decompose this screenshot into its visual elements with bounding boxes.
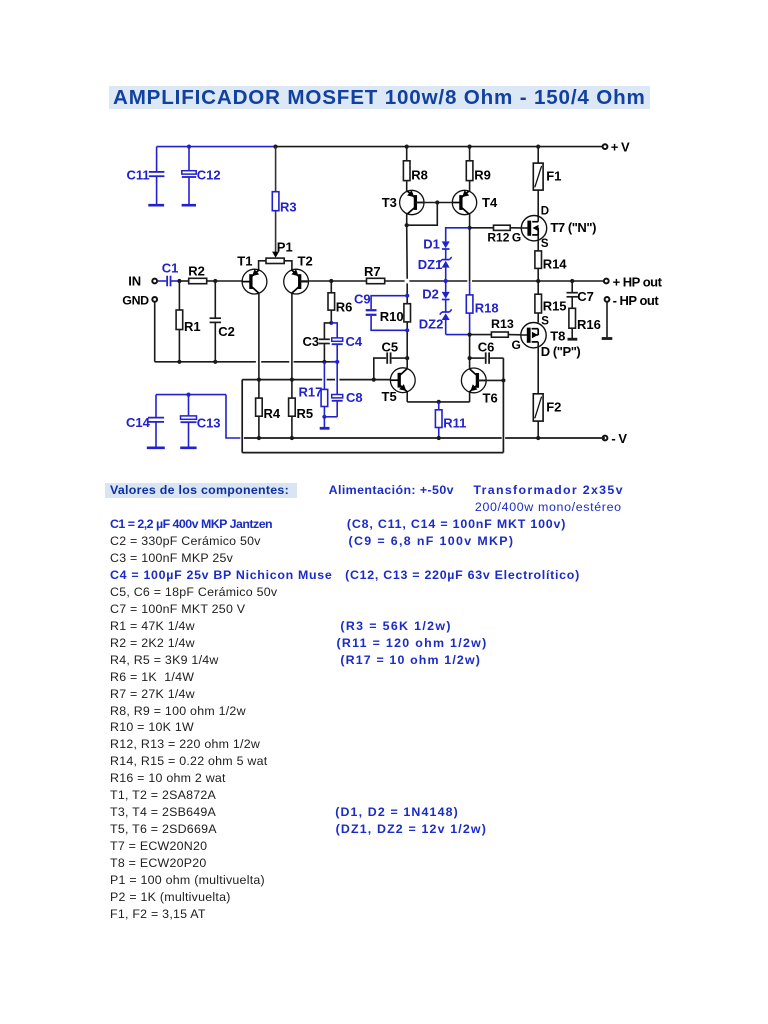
MOSFET T8 bbox=[521, 323, 581, 360]
wire R2 to T1 base bbox=[215, 280, 242, 282]
svg-text:R5: R5 bbox=[297, 406, 314, 421]
MOSFET T7 bbox=[521, 205, 596, 250]
ground bus wire bbox=[155, 361, 338, 363]
node R2/C2 junction bbox=[213, 279, 217, 283]
svg-text:G: G bbox=[512, 230, 521, 244]
capacitor C9 bbox=[354, 291, 407, 330]
output terminal +HP out bbox=[604, 275, 663, 290]
svg-text:C13: C13 bbox=[197, 415, 221, 430]
wire T2 base to R6/R7 node bbox=[300, 280, 332, 282]
capacitor C7 bbox=[567, 281, 594, 308]
output terminal -HP out bbox=[605, 293, 660, 308]
node R18 bottom / R13 bbox=[468, 333, 472, 337]
wire feedback network left edge bbox=[241, 380, 243, 453]
capacitor C12 bbox=[182, 147, 221, 206]
resistor R8 bbox=[403, 147, 427, 183]
node C5 right / T5 collector line bbox=[405, 356, 409, 360]
svg-text:T5: T5 bbox=[382, 389, 397, 404]
svg-text:C7: C7 bbox=[577, 289, 594, 304]
svg-text:R7: R7 bbox=[364, 264, 381, 279]
ground bar below -HP out bbox=[602, 337, 613, 340]
fuse F1 bbox=[533, 147, 561, 222]
wire T6 base to feedback edge bbox=[477, 379, 503, 381]
transistor T1 bbox=[237, 253, 267, 294]
node C3/C4 top junction bbox=[329, 321, 333, 325]
node C12 / +V rail junction bbox=[187, 145, 191, 149]
node R9 / +V rail bbox=[468, 145, 472, 149]
node C7 / output line bbox=[570, 279, 574, 283]
node R5 / -V rail bbox=[290, 436, 294, 440]
transistor T4 bbox=[452, 181, 498, 215]
node C9 bottom / VAS line bbox=[405, 328, 409, 332]
transistor T5 bbox=[382, 368, 416, 404]
ground terminal GND bbox=[122, 293, 157, 307]
node T1 collector / T5 base line bbox=[257, 378, 261, 382]
zener diode DZ1 bbox=[418, 249, 452, 281]
capacitor C3 bbox=[303, 323, 332, 362]
wire T3 base to T4 base bbox=[415, 202, 453, 204]
capacitor C6 bbox=[470, 340, 504, 364]
wire T8 drain to F2 bbox=[537, 342, 539, 394]
capacitor C11 bbox=[127, 147, 165, 206]
capacitor C1 bbox=[157, 261, 179, 287]
supply terminal +V bbox=[603, 140, 630, 155]
wire output feedback line (R7 to D-chain) bbox=[385, 280, 446, 282]
svg-text:DZ2: DZ2 bbox=[419, 317, 444, 332]
wire C14/C13 top to -V rail bbox=[156, 395, 240, 438]
svg-text:C5: C5 bbox=[382, 339, 399, 354]
input terminal IN bbox=[128, 274, 157, 289]
capacitor C2 bbox=[210, 281, 235, 362]
node R11 / -V rail bbox=[437, 436, 441, 440]
capacitor C8 bbox=[324, 362, 362, 417]
supply terminal -V bbox=[603, 431, 628, 446]
svg-text:C12: C12 bbox=[197, 168, 221, 183]
page title bbox=[109, 86, 650, 109]
svg-text:C2: C2 bbox=[218, 324, 235, 339]
svg-text:R8: R8 bbox=[411, 168, 428, 183]
svg-text:T1: T1 bbox=[237, 253, 252, 268]
wire T5 emitter to T6 emitter bbox=[407, 392, 469, 402]
node C2/ground bus bbox=[213, 360, 217, 364]
resistor R4 bbox=[256, 398, 281, 421]
svg-text:D1: D1 bbox=[423, 237, 440, 252]
wire feedback network right edge bbox=[502, 358, 504, 453]
fuse F2 bbox=[533, 394, 561, 438]
wire P1 right to T2 emitter bbox=[284, 261, 292, 271]
svg-text:R11: R11 bbox=[443, 416, 466, 431]
resistor R10 bbox=[380, 304, 411, 324]
svg-text:T3: T3 bbox=[382, 195, 397, 210]
node C4/ground bus bbox=[335, 360, 339, 364]
wire -V rail bbox=[244, 437, 605, 439]
node C6 left / T6 collector line bbox=[468, 356, 472, 360]
svg-text:F1: F1 bbox=[546, 168, 561, 183]
component values list bbox=[0, 483, 768, 500]
transistor T6 bbox=[461, 368, 497, 406]
diode D1 bbox=[423, 228, 469, 252]
node R14 / output line bbox=[536, 279, 540, 283]
svg-text:R15: R15 bbox=[543, 298, 567, 313]
capacitor C14 bbox=[126, 395, 165, 448]
svg-text:T4: T4 bbox=[482, 195, 498, 210]
node T6 base / feedback edge bbox=[501, 378, 505, 382]
wire T2 collector down to R5 bbox=[291, 293, 293, 438]
svg-text:R4: R4 bbox=[264, 406, 281, 421]
svg-text:R17: R17 bbox=[299, 385, 323, 400]
svg-text:R12: R12 bbox=[487, 230, 509, 244]
resistor R6 bbox=[328, 281, 352, 323]
resistor R13 bbox=[470, 317, 521, 352]
node R4 / -V rail bbox=[257, 436, 261, 440]
potentiometer P1 bbox=[266, 239, 293, 263]
svg-text:T8: T8 bbox=[550, 329, 565, 344]
node C5 left / T5 base bbox=[372, 378, 376, 382]
node R3 / +V rail junction bbox=[273, 145, 277, 149]
svg-text:G: G bbox=[512, 338, 521, 352]
node D-chain / output line bbox=[444, 279, 448, 283]
resistor R16 bbox=[569, 308, 601, 338]
capacitor C13 bbox=[180, 395, 220, 448]
resistor R3 bbox=[272, 147, 296, 253]
node R11 top bbox=[437, 400, 441, 404]
node R8 / +V rail bbox=[405, 145, 409, 149]
zener diode DZ2 bbox=[419, 300, 470, 335]
wire R18 bottom to T6 collector bbox=[469, 335, 471, 370]
svg-text:P1: P1 bbox=[277, 239, 293, 254]
wire feedback network bottom edge bbox=[242, 452, 503, 454]
circuit schematic bbox=[0, 0, 768, 470]
svg-text:C11: C11 bbox=[127, 167, 150, 182]
resistor R18 bbox=[466, 281, 498, 335]
svg-text:IN: IN bbox=[128, 274, 141, 289]
node F1 / +V rail bbox=[536, 145, 540, 149]
node T4 collector / bias chain bbox=[468, 226, 472, 230]
potentiometer P1 wiper arrow bbox=[272, 252, 279, 258]
wire T1 collector down to R4 bbox=[258, 293, 260, 438]
svg-text:C6: C6 bbox=[478, 340, 495, 355]
node T3 collector / VAS line bbox=[405, 223, 409, 227]
svg-text:R3: R3 bbox=[280, 200, 297, 215]
svg-text:F2: F2 bbox=[546, 399, 561, 414]
svg-text:DZ1: DZ1 bbox=[418, 257, 443, 272]
resistor R14 bbox=[535, 251, 567, 281]
wire VAS vertical (T3 collector down to R10/C5) bbox=[406, 225, 409, 369]
transistor T2 bbox=[284, 253, 313, 294]
node C1/R1/R2 junction bbox=[177, 279, 181, 283]
node R6 top bbox=[329, 279, 333, 283]
svg-text:C3: C3 bbox=[303, 334, 320, 349]
svg-text:R6: R6 bbox=[336, 299, 353, 314]
svg-text:R13: R13 bbox=[491, 317, 514, 331]
svg-text:- HP out: - HP out bbox=[613, 293, 660, 308]
svg-text:GND: GND bbox=[122, 293, 149, 307]
svg-text:R10: R10 bbox=[380, 309, 404, 324]
resistor R9 bbox=[466, 147, 491, 183]
resistor R5 bbox=[289, 398, 314, 421]
transistor T3 bbox=[382, 181, 424, 215]
wire T7 source to R14 bbox=[537, 235, 539, 251]
wire T3 collector to base node bbox=[407, 203, 438, 226]
svg-text:C9: C9 bbox=[354, 291, 371, 306]
resistor R15 bbox=[535, 281, 567, 327]
wire output line (D-chain to +HP out) bbox=[446, 280, 606, 282]
resistor R11 bbox=[435, 402, 466, 438]
svg-text:R14: R14 bbox=[543, 256, 568, 271]
wire T5 base line from feedback corner bbox=[242, 379, 390, 381]
node R1/ground bus bbox=[177, 360, 181, 364]
node C9 top / VAS line bbox=[405, 294, 409, 298]
svg-text:C8: C8 bbox=[346, 390, 363, 405]
wire +V rail (blue section) bbox=[157, 146, 276, 148]
svg-text:- V: - V bbox=[611, 431, 627, 446]
diode D2 bbox=[422, 281, 450, 302]
svg-text:C4: C4 bbox=[346, 334, 363, 349]
wire -HP out to ground bar bbox=[606, 302, 608, 337]
node C3/ground bus bbox=[322, 360, 326, 364]
svg-text:R1: R1 bbox=[184, 319, 201, 334]
node T3/T4 base junction bbox=[435, 200, 439, 204]
svg-text:C1: C1 bbox=[162, 261, 179, 276]
resistor R1 bbox=[176, 281, 201, 362]
wire +V rail (black section) bbox=[276, 146, 606, 148]
ground bar below R16 bbox=[568, 338, 578, 341]
capacitor C5 bbox=[374, 339, 407, 379]
svg-text:R16: R16 bbox=[577, 317, 601, 332]
svg-text:C14: C14 bbox=[126, 415, 151, 430]
wire P1 left to T1 emitter bbox=[259, 261, 266, 271]
svg-text:D2: D2 bbox=[422, 287, 439, 302]
svg-text:R18: R18 bbox=[475, 300, 499, 315]
svg-text:+ V: + V bbox=[611, 140, 630, 155]
wire GND terminal down to ground bus bbox=[154, 302, 156, 362]
svg-text:T7 ("N"): T7 ("N") bbox=[550, 220, 596, 235]
svg-text:D: D bbox=[541, 205, 549, 217]
node F2 / -V rail bbox=[536, 436, 540, 440]
resistor R12 bbox=[470, 225, 522, 244]
resistor R17 bbox=[299, 362, 328, 417]
svg-text:+ HP out: + HP out bbox=[613, 275, 663, 290]
svg-text:T6: T6 bbox=[483, 391, 498, 406]
svg-text:R9: R9 bbox=[474, 168, 491, 183]
node R17/C8 bottom junction bbox=[322, 415, 326, 419]
svg-text:D ("P"): D ("P") bbox=[541, 344, 581, 359]
capacitor C4 bbox=[331, 323, 363, 362]
resistor R2 bbox=[179, 264, 215, 284]
wire T4 collector down bbox=[469, 214, 471, 281]
svg-text:S: S bbox=[541, 238, 549, 250]
node C13 / top wire bbox=[186, 393, 190, 397]
ground symbol below R17 bbox=[320, 417, 330, 429]
resistor R7 bbox=[331, 264, 384, 284]
svg-text:R2: R2 bbox=[188, 264, 205, 279]
svg-text:T2: T2 bbox=[298, 253, 313, 268]
node T2 collector / T5 base line bbox=[290, 378, 294, 382]
